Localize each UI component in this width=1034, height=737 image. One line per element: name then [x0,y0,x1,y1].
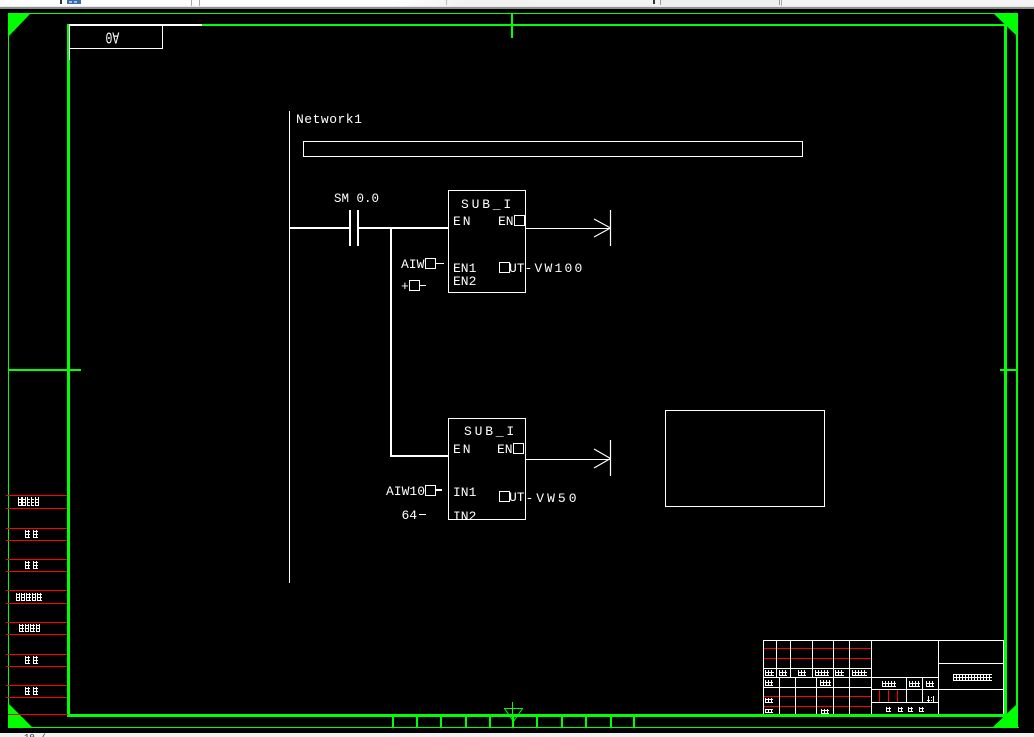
row 签字 [6,654,67,655]
block2 output wire [525,459,610,460]
junction wire down [390,227,392,456]
toolbar separator [60,0,62,4]
row 旧底图总号 [6,590,67,591]
日期 [25,687,30,695]
wire rail to contact [290,227,349,229]
block2 arrow [593,440,612,477]
corner triangle bottom-right [993,703,1018,728]
row 描图 [6,528,67,529]
left table verticals band B [779,677,780,714]
status strip (bottom of app window) [0,733,1034,737]
centering mark right [1000,369,1018,371]
corner triangle top-left [8,13,32,38]
block1 arrow [593,210,612,247]
bottom red line [8,714,68,715]
centering mark left [8,369,81,371]
row 底图总号 [6,622,67,623]
签字 [25,656,30,664]
toolbar blue icon [67,0,81,4]
outer border left [8,13,9,728]
empty rectangle right [665,410,825,507]
outer verticals [763,640,764,714]
centering mark bottom: triangle outline [504,708,523,722]
row 日期 [6,685,67,686]
旧底图总号 [16,593,20,601]
SM 0.0 label [334,193,379,206]
row 借用件登记 [6,495,67,496]
left table horizontals [763,668,872,669]
A0 text (rotated 180) [106,28,120,45]
block2 output label [526,492,580,505]
block1 input labels [401,258,424,271]
SUB_I block 1 [448,190,526,293]
red revision lines [764,648,871,649]
inner frame right [1004,24,1007,717]
toolbar separators [191,0,192,6]
block2 input labels [386,485,425,498]
corner triangle bottom-left [8,703,32,728]
outer border bottom [8,727,1019,728]
wire junction to block2 EN [390,455,449,457]
status text fragment [24,733,48,737]
title block texts [765,670,774,676]
inner frame bottom [67,714,1007,717]
left power rail [289,111,290,583]
wire contact to block1 [359,227,449,229]
corner triangle top-right [993,13,1018,38]
toolbar combo box [660,0,780,5]
outer border right [1016,13,1018,728]
contact right bar [357,210,359,246]
bottom ruler ticks [392,716,394,727]
middle column horizontals [871,677,939,678]
left table verticals band A [776,640,777,677]
contact left bar [349,210,351,246]
network comment box [303,141,803,157]
描图 [25,530,30,538]
描校 [25,561,30,569]
left table glyphs: 借用件登记 [18,497,22,506]
drawing title [953,674,992,681]
block1 output label [525,262,585,275]
SUB_I block 2 [448,418,526,520]
inner frame top [67,24,1007,26]
red stage ticks [879,690,880,702]
A0 designation box [69,24,202,26]
row 描校 [6,559,67,560]
top edge [763,640,1004,641]
centering mark bottom: horizontal [504,708,523,709]
toolbar strip (top of app window) [0,0,1034,9]
outer border top [8,13,1018,14]
Network1 label [296,113,362,126]
middle column verticals [906,677,907,702]
centering mark top [511,13,513,38]
centering mark bottom: vertical [512,702,513,727]
block1 output wire [525,228,610,229]
底图总号 [19,624,24,632]
inner frame left [67,24,70,717]
right column horizontals [938,663,1004,664]
